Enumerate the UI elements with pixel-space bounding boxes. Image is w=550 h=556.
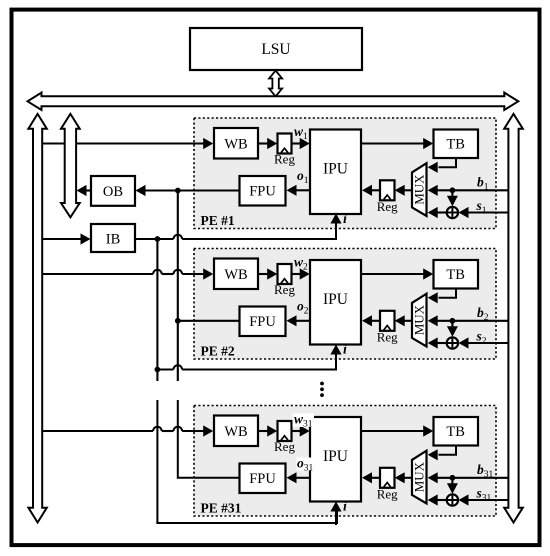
IB box [91,224,135,252]
MUX PE#31 [412,451,427,504]
PE #2 dashed frame [194,249,496,360]
svg-text:Reg: Reg [274,152,295,167]
wire b2 input [438,320,509,322]
FPU box PE#31 [240,464,286,494]
wire IPU to FPU (o1) [296,189,310,191]
OB box [91,176,135,206]
svg-text:TB: TB [446,137,465,153]
input register (Reg) PE#1 [278,134,292,154]
FPU box PE#1 [240,176,286,206]
svg-text:i: i [343,500,347,515]
wire: IB output to i input of PE #1 (hops over FPU net) [135,238,174,240]
LSU bidirectional arrow to bus [269,71,282,97]
junction: FPU PE#2 joins collect net [175,318,181,324]
wire IPU to FPU (o31) [296,477,310,479]
wire: bus to WB of PE #1 [42,142,203,144]
input register (Reg) PE#2 [278,264,292,284]
output register (Reg) PE#1 [380,180,395,200]
wire b31 input [438,477,509,479]
adder (XOR) PE#31 [447,494,458,505]
wire Reg to IPU PE#31 [292,430,302,432]
wire adder to MUX PE#1 [438,211,447,213]
vertical FPU-collect net (lower part) + FPU PE#31 output [178,400,240,478]
svg-text:FPU: FPU [249,314,276,330]
wire: bus to WB of PE #2 (hops over vertical nets) [42,273,153,275]
LSU box [190,28,362,70]
WB box PE#1 [214,128,258,159]
wire WB to Reg PE#31 [258,430,269,432]
IPU box PE#31 [310,417,361,502]
adder (XOR) PE#1 [447,207,458,218]
wire Reg to IPU PE#2 [292,273,302,275]
IPU box PE#2 [310,260,361,345]
WB box PE#31 [214,416,258,447]
wire: OB output to vertical bus arrow [86,189,91,191]
vertical i-distribution net (lower part) + wire to i of PE #31 [157,400,335,523]
junction b2 branch [450,318,456,324]
svg-text:MUX: MUX [412,304,427,335]
horizontal system bus (double-headed hollow arrow) [28,93,519,110]
junction: i net branch to PE #2 [155,367,161,373]
svg-text:IB: IB [106,232,121,248]
IPU box PE#1 [310,130,361,215]
wire corner V1 bottom [157,511,337,523]
wire WB to Reg PE#2 [258,273,269,275]
wire IPU to TB PE#2 [361,273,425,275]
wire s1 input [468,211,508,213]
wire adder to MUX PE#31 [438,499,447,501]
svg-text:Reg: Reg [377,329,398,344]
svg-text:WB: WB [224,424,247,440]
svg-text:LSU: LSU [261,41,290,58]
TB box PE#1 [434,130,479,159]
svg-text:i: i [343,212,347,227]
junction: IB output to vertical i net [155,236,161,242]
wire adder to MUX PE#2 [438,342,447,344]
TB box PE#2 [434,260,479,289]
wire b1 input [438,189,509,191]
wire s2 input [468,342,508,344]
wire Reg to IPU PE#1 [292,142,302,144]
label o31 [297,458,316,471]
wire TB to MUX PE#31 [439,446,457,455]
wire: i net to i input of PE #2 (hops over FPU net) [157,368,173,370]
wire TB to MUX PE#1 [439,158,457,167]
wire b1 to adder [451,190,453,198]
WB box PE#2 [214,259,258,290]
wire: bus to IB input [42,238,81,240]
PE #31 dashed frame [194,406,496,517]
svg-text:PE #31: PE #31 [201,501,242,516]
output register (Reg) PE#2 [380,311,395,331]
label w31 [293,414,315,428]
junction b31 branch [450,475,456,481]
svg-text:MUX: MUX [412,174,427,205]
output register (Reg) PE#31 [380,468,395,488]
wire IPU to FPU (o2) [296,320,310,322]
wire: FPU PE#1 output to OB input [146,189,240,191]
svg-text:FPU: FPU [249,471,276,487]
PE #1 dashed frame [194,118,496,229]
wire Reg to IPU right PE#2 [372,320,381,322]
ellipsis (omitted PEs) [320,382,324,386]
wire b31 to adder [451,478,453,486]
svg-text:IPU: IPU [323,291,348,308]
wire: FPU PE#2 output to OB collect net [178,320,240,322]
FPU box PE#2 [240,307,286,337]
right vertical bus (tall double-headed hollow arrow) [504,114,523,523]
svg-text:PE #2: PE #2 [201,344,235,359]
svg-text:Reg: Reg [377,199,398,214]
svg-text:Reg: Reg [274,282,295,297]
svg-text:TB: TB [446,424,465,440]
adder (XOR) PE#2 [447,337,458,348]
wire TB to MUX PE#2 [439,289,457,298]
vertical FPU-collect net (upper part) [177,191,179,382]
wire WB to Reg PE#1 [258,142,269,144]
svg-text:FPU: FPU [249,184,276,200]
svg-text:Reg: Reg [274,439,295,454]
svg-text:OB: OB [103,184,123,200]
junction b1 branch [450,187,456,193]
wire MUX to Reg PE#31 [404,477,412,479]
output vertical bus arrow (short, by OB) [61,114,80,217]
left vertical bus (tall double-headed hollow arrow) [28,114,46,523]
svg-text:i: i [343,343,347,358]
wire MUX to Reg PE#2 [404,320,412,322]
wire MUX to Reg PE#1 [404,189,412,191]
wire IPU to TB PE#1 [361,142,425,144]
svg-text:WB: WB [224,267,247,283]
wire Reg to IPU right PE#31 [372,477,381,479]
TB box PE#31 [434,417,479,446]
wire b2 to adder [451,321,453,329]
svg-text:IPU: IPU [323,448,348,465]
svg-text:PE #1: PE #1 [201,213,235,228]
svg-text:TB: TB [446,267,465,283]
MUX PE#2 [412,294,427,347]
input register (Reg) PE#31 [278,421,292,441]
svg-text:MUX: MUX [412,461,427,492]
vertical i-distribution net (upper part) [156,239,158,381]
junction: FPU collect net joins OB line [175,188,181,194]
svg-text:WB: WB [224,137,247,153]
svg-text:Reg: Reg [377,486,398,501]
MUX PE#1 [412,163,427,216]
svg-text:IPU: IPU [323,161,348,178]
wire IPU to TB PE#31 [361,430,425,432]
wire s31 input [468,499,508,501]
wire: bus to WB of PE #31 (hops over vertical nets) [42,430,153,432]
wire Reg to IPU right PE#1 [372,189,381,191]
